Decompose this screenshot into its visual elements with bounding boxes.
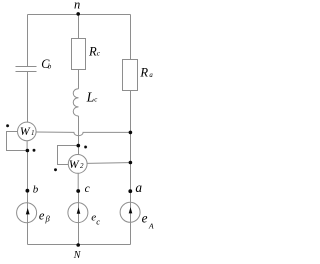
wire W1 voltage loop left <box>7 132 28 151</box>
svg-text:b: b <box>48 63 52 70</box>
node junction W2 top <box>77 144 81 148</box>
svg-text:c: c <box>96 217 100 227</box>
wire right branch upper <box>130 15 132 60</box>
resistor Rc <box>72 39 86 70</box>
node c <box>76 189 80 193</box>
svg-text:R: R <box>139 66 148 80</box>
wire node a to source <box>130 191 132 244</box>
svg-text:W: W <box>20 125 31 138</box>
wire Lc to W2 junction <box>78 116 80 146</box>
wire bottom bus N <box>28 244 131 246</box>
svg-text:A: A <box>148 222 154 231</box>
wire top bus n <box>28 14 131 16</box>
wire W1 bottom to junction <box>26 141 28 151</box>
svg-text:a: a <box>149 72 153 79</box>
svg-text:c: c <box>85 183 90 195</box>
svg-text:c: c <box>94 97 97 104</box>
node n <box>76 12 80 16</box>
wire W2 voltage loop left <box>58 146 79 165</box>
capacitor Cb <box>16 67 37 72</box>
svg-text:c: c <box>97 48 101 57</box>
svg-text:b: b <box>33 183 39 195</box>
wire left branch upper <box>27 15 29 67</box>
source eb circle <box>17 203 37 223</box>
svg-text:N: N <box>73 250 82 261</box>
svg-text:e: e <box>142 211 148 226</box>
polarity mark W2 current <box>84 146 87 149</box>
node a <box>128 189 132 193</box>
wire W2 right stub <box>87 162 130 165</box>
wire W2 top stub <box>78 146 80 155</box>
svg-text:a: a <box>135 180 142 195</box>
wire left branch cap to W1 <box>27 72 29 123</box>
node b <box>26 189 30 193</box>
wire right branch Ra to node a <box>130 91 132 192</box>
svg-text:W: W <box>69 158 80 171</box>
svg-text:n: n <box>74 0 80 12</box>
resistor Ra <box>123 60 138 91</box>
node junction right W2 tap <box>129 161 133 165</box>
polarity mark W1 current <box>6 124 9 127</box>
wire through eb <box>27 203 29 223</box>
node junction right W1 tap <box>129 131 133 135</box>
wire node c to source <box>78 191 80 245</box>
node junction W1 loop <box>26 149 30 153</box>
node N <box>76 243 80 247</box>
wire through ea <box>130 202 132 222</box>
wattmeter W1 circle <box>18 122 37 141</box>
svg-text:1: 1 <box>31 129 35 137</box>
wire node b to source <box>27 191 29 245</box>
wattmeter W2 circle <box>68 155 87 174</box>
wire left branch junction to node b <box>27 151 29 191</box>
polarity mark W1 voltage <box>33 149 36 152</box>
wire through ec <box>78 203 80 223</box>
inductor Lc <box>73 89 78 116</box>
svg-text:e: e <box>39 209 45 223</box>
svg-text:β: β <box>45 214 51 224</box>
wire Rc to Lc <box>78 70 80 89</box>
source ea circle <box>120 202 140 222</box>
arrow eb <box>26 208 30 214</box>
arrow ea <box>129 207 133 213</box>
source ec circle <box>68 203 88 223</box>
polarity mark W2 voltage <box>54 168 57 171</box>
wire middle branch upper <box>78 15 80 39</box>
svg-text:2: 2 <box>80 162 84 170</box>
arrow ec <box>77 207 81 213</box>
wire W2 bottom stub <box>77 173 79 191</box>
wire W1 right stub with hop over middle branch <box>36 132 130 136</box>
